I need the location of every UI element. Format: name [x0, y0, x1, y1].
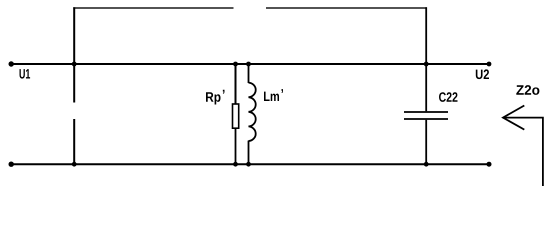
wire inductor branch upper [248, 64, 250, 83]
node bottom-right terminal dot [487, 162, 492, 167]
junction dot resistor bottom [233, 162, 238, 167]
wire left vertical upper [73, 7, 75, 102]
wire inductor branch lower [248, 141, 250, 165]
label Lm' [264, 89, 283, 101]
junction dot resistor top [233, 62, 238, 67]
wire node U1 horizontal [11, 63, 489, 65]
junction dot left top [72, 62, 77, 67]
node bottom-left terminal dot [9, 162, 14, 167]
capacitor C22 bottom plate [404, 118, 448, 120]
resistor Rp' body [233, 104, 239, 128]
junction dot capacitor bottom [424, 162, 429, 167]
wire bottom horizontal [11, 163, 489, 165]
junction dot capacitor top [424, 62, 429, 67]
arrow Z2o head [503, 106, 524, 130]
wire capacitor branch upper [425, 7, 427, 111]
wire left vertical lower [73, 119, 75, 164]
junction dot inductor top [246, 62, 251, 67]
junction dot inductor bottom [246, 162, 251, 167]
wire resistor branch upper [235, 64, 237, 104]
node U2 terminal dot [487, 62, 492, 67]
junction dot left bottom [72, 162, 77, 167]
label U2 [476, 69, 489, 79]
capacitor C22 top plate [404, 111, 448, 113]
wire top-left segment [73, 7, 233, 9]
node U1 terminal dot [9, 61, 14, 66]
arrow Z2o shaft [503, 118, 543, 186]
label C22 [439, 92, 458, 102]
wire top-right segment [266, 7, 427, 9]
label Rp' [206, 90, 225, 105]
label U1 [20, 69, 31, 79]
wire capacitor branch lower [425, 120, 427, 164]
label Z2o [516, 85, 539, 95]
wire resistor branch lower [235, 128, 237, 164]
inductor Lm' coil [249, 83, 256, 141]
